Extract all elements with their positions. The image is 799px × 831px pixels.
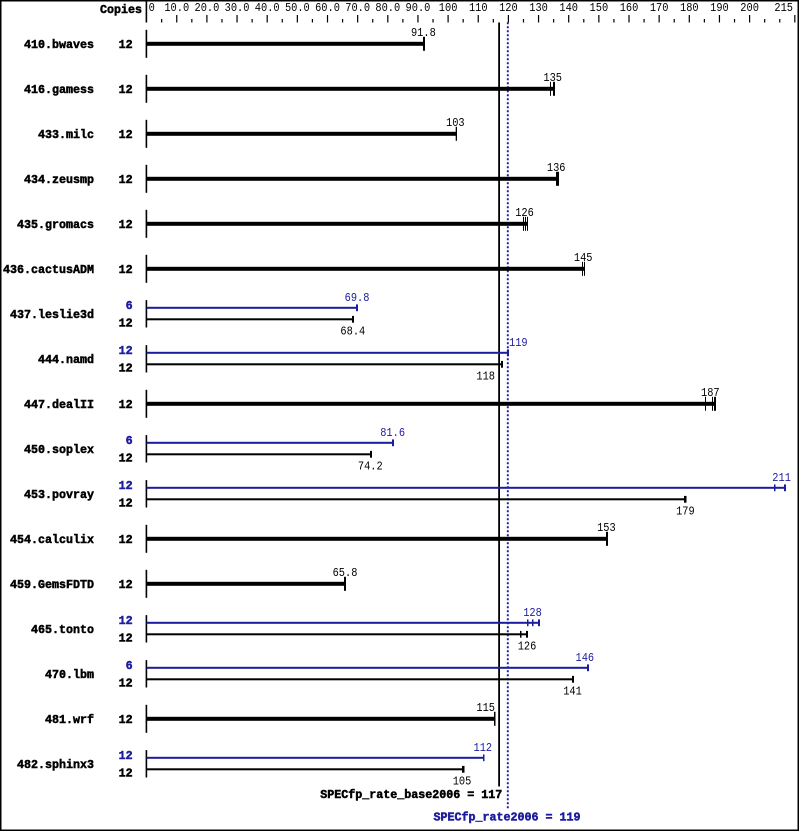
- svg-text:450.soplex: 450.soplex: [24, 443, 94, 457]
- svg-text:12: 12: [119, 497, 133, 511]
- svg-text:12: 12: [119, 263, 133, 277]
- svg-text:12: 12: [119, 749, 133, 763]
- svg-text:40.0: 40.0: [255, 1, 280, 15]
- svg-text:12: 12: [119, 713, 133, 727]
- svg-text:6: 6: [126, 434, 133, 448]
- svg-text:453.povray: 453.povray: [24, 488, 94, 502]
- svg-text:135: 135: [543, 71, 562, 85]
- axis major ticks: [176, 15, 177, 23]
- svg-text:65.8: 65.8: [333, 566, 358, 580]
- svg-text:10.0: 10.0: [164, 1, 189, 15]
- svg-text:12: 12: [119, 632, 133, 646]
- svg-text:187: 187: [701, 386, 720, 400]
- svg-text:12: 12: [119, 767, 133, 781]
- dotted peak reference line (119): [507, 22, 509, 809]
- svg-text:444.namd: 444.namd: [38, 353, 94, 367]
- svg-text:12: 12: [119, 614, 133, 628]
- svg-text:SPECfp_rate_base2006 = 117: SPECfp_rate_base2006 = 117: [320, 788, 502, 802]
- svg-text:105: 105: [453, 774, 472, 788]
- svg-text:190: 190: [710, 1, 729, 15]
- svg-text:50.0: 50.0: [285, 1, 310, 15]
- svg-text:482.sphinx3: 482.sphinx3: [17, 758, 94, 772]
- svg-text:150: 150: [590, 1, 609, 15]
- svg-text:90.0: 90.0: [406, 1, 431, 15]
- svg-text:153: 153: [597, 521, 616, 535]
- svg-text:91.8: 91.8: [411, 26, 436, 40]
- svg-text:20.0: 20.0: [195, 1, 220, 15]
- svg-text:12: 12: [119, 317, 133, 331]
- svg-text:12: 12: [119, 398, 133, 412]
- svg-text:12: 12: [119, 173, 133, 187]
- svg-text:436.cactusADM: 436.cactusADM: [3, 263, 94, 277]
- svg-text:481.wrf: 481.wrf: [45, 713, 94, 727]
- svg-text:12: 12: [119, 344, 133, 358]
- solid base reference line (117): [498, 23, 500, 787]
- svg-text:12: 12: [119, 677, 133, 691]
- svg-text:130: 130: [529, 1, 548, 15]
- svg-text:100: 100: [439, 1, 458, 15]
- svg-text:30.0: 30.0: [225, 1, 250, 15]
- svg-text:12: 12: [119, 38, 133, 52]
- svg-text:465.tonto: 465.tonto: [31, 623, 94, 637]
- svg-text:69.8: 69.8: [345, 291, 370, 305]
- svg-text:141: 141: [563, 684, 582, 698]
- svg-text:118: 118: [476, 369, 495, 383]
- svg-text:145: 145: [574, 251, 593, 265]
- svg-text:12: 12: [119, 83, 133, 97]
- svg-text:179: 179: [676, 504, 695, 518]
- svg-text:81.6: 81.6: [380, 426, 405, 440]
- svg-text:120: 120: [499, 1, 518, 15]
- svg-text:12: 12: [119, 218, 133, 232]
- svg-text:211: 211: [772, 471, 791, 485]
- svg-text:12: 12: [119, 128, 133, 142]
- svg-text:126: 126: [518, 639, 537, 653]
- svg-text:112: 112: [474, 741, 493, 755]
- svg-text:103: 103: [446, 116, 465, 130]
- axis minor ticks: [161, 19, 162, 23]
- svg-text:SPECfp_rate2006 = 119: SPECfp_rate2006 = 119: [434, 811, 581, 825]
- svg-text:410.bwaves: 410.bwaves: [24, 38, 94, 52]
- svg-text:146: 146: [576, 651, 595, 665]
- svg-text:454.calculix: 454.calculix: [10, 533, 94, 547]
- svg-text:126: 126: [515, 206, 534, 220]
- svg-text:136: 136: [547, 161, 566, 175]
- svg-text:Copies: Copies: [100, 3, 142, 17]
- svg-text:434.zeusmp: 434.zeusmp: [24, 173, 94, 187]
- svg-text:416.gamess: 416.gamess: [24, 83, 94, 97]
- svg-text:128: 128: [523, 606, 542, 620]
- svg-text:160: 160: [620, 1, 639, 15]
- svg-text:80.0: 80.0: [375, 1, 400, 15]
- svg-text:140: 140: [559, 1, 578, 15]
- svg-text:119: 119: [509, 336, 528, 350]
- axis header separator line: [146, 1, 148, 23]
- svg-text:12: 12: [119, 452, 133, 466]
- svg-text:6: 6: [126, 659, 133, 673]
- svg-text:437.leslie3d: 437.leslie3d: [10, 308, 94, 322]
- svg-text:170: 170: [650, 1, 669, 15]
- svg-text:0: 0: [149, 1, 155, 15]
- svg-text:60.0: 60.0: [315, 1, 340, 15]
- svg-text:470.lbm: 470.lbm: [45, 668, 94, 682]
- svg-text:74.2: 74.2: [358, 459, 383, 473]
- svg-text:12: 12: [119, 578, 133, 592]
- svg-text:6: 6: [126, 299, 133, 313]
- svg-text:110: 110: [469, 1, 488, 15]
- svg-text:180: 180: [680, 1, 699, 15]
- svg-text:68.4: 68.4: [340, 324, 365, 338]
- svg-text:459.GemsFDTD: 459.GemsFDTD: [10, 578, 94, 592]
- svg-text:12: 12: [119, 362, 133, 376]
- svg-text:70.0: 70.0: [345, 1, 370, 15]
- svg-text:435.gromacs: 435.gromacs: [17, 218, 94, 232]
- svg-text:200: 200: [740, 1, 759, 15]
- svg-text:433.milc: 433.milc: [38, 128, 94, 142]
- svg-text:12: 12: [119, 533, 133, 547]
- svg-text:12: 12: [119, 479, 133, 493]
- svg-text:215: 215: [774, 1, 793, 15]
- svg-text:115: 115: [476, 701, 495, 715]
- svg-text:447.dealII: 447.dealII: [24, 398, 94, 412]
